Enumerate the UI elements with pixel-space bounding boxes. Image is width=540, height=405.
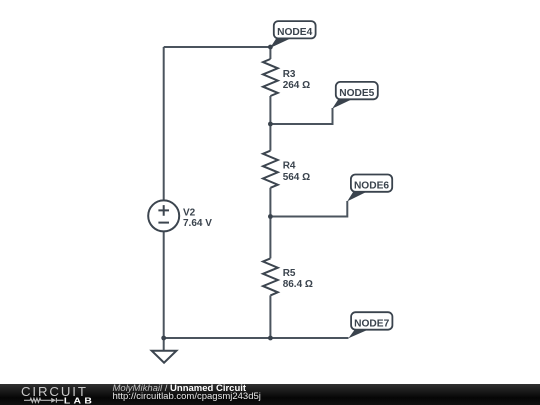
svg-text:R5: R5 xyxy=(283,268,296,279)
resistor R5 xyxy=(263,258,278,295)
footer text line 2 xyxy=(113,391,261,402)
node label NODE6 xyxy=(347,175,392,202)
voltage source V2 circle xyxy=(148,200,179,231)
wire node6 branch xyxy=(270,201,347,217)
node label NODE7 xyxy=(348,312,392,338)
svg-text:NODE6: NODE6 xyxy=(354,181,389,192)
wire R5 bottom stub xyxy=(269,295,271,338)
svg-text:7.64 V: 7.64 V xyxy=(183,218,212,229)
svg-text:86.4 Ω: 86.4 Ω xyxy=(283,279,313,290)
svg-text:264 Ω: 264 Ω xyxy=(283,80,310,91)
wire R3 top stub xyxy=(269,47,271,59)
svg-text:LAB: LAB xyxy=(64,396,95,405)
svg-text:564 Ω: 564 Ω xyxy=(283,172,310,183)
svg-text:NODE7: NODE7 xyxy=(354,318,389,329)
node label NODE4 xyxy=(270,21,316,48)
wire top horizontal xyxy=(164,46,271,48)
junction node C (NODE6) xyxy=(268,214,273,219)
ground stub xyxy=(163,338,165,351)
junction node B (NODE5) xyxy=(268,122,273,127)
resistor R3 xyxy=(263,59,278,96)
wire node5 branch xyxy=(270,108,332,124)
svg-text:NODE4: NODE4 xyxy=(277,27,312,38)
svg-text:NODE5: NODE5 xyxy=(339,88,374,99)
wire bottom horizontal xyxy=(164,337,349,339)
CircuitLab logo xyxy=(10,383,115,405)
wire left vertical upper xyxy=(163,47,165,200)
wire R4-R5 segment xyxy=(269,188,271,259)
wire R3-R4 segment xyxy=(269,96,271,151)
svg-text:R4: R4 xyxy=(283,161,296,172)
junction node D (bottom left, ground) xyxy=(161,336,166,341)
footer bar xyxy=(0,384,540,405)
ground triangle xyxy=(152,351,177,363)
voltage source V2 minus sign xyxy=(158,222,169,224)
voltage source V2 plus sign xyxy=(158,205,169,216)
svg-text:R3: R3 xyxy=(283,69,296,80)
footer text line 1 xyxy=(113,383,247,394)
junction node E (bottom, R5) xyxy=(268,336,273,341)
node label NODE5 xyxy=(332,82,378,109)
resistor R4 xyxy=(263,151,278,188)
junction node A (top, NODE4) xyxy=(268,45,273,50)
wire left vertical lower xyxy=(163,231,165,338)
